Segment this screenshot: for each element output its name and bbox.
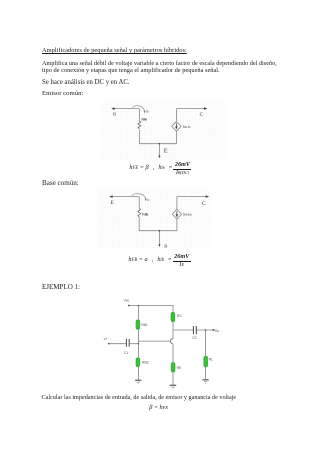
paragraph line 2	[42, 68, 220, 74]
svg-text:C2: C2	[192, 336, 196, 340]
svg-text:RB2: RB2	[142, 361, 149, 365]
capacitor C1 plates	[126, 339, 129, 347]
junction dot rail-RB1	[138, 305, 140, 307]
arrowhead ie hook (points down)	[145, 199, 147, 202]
svg-text:ie: ie	[147, 198, 150, 202]
resistor RL body	[204, 356, 208, 367]
wire emitter vertical to RE	[172, 344, 174, 363]
wire C1 to base node	[129, 343, 138, 345]
current source hfe.ib diamond	[172, 122, 181, 132]
junction dot base	[138, 343, 140, 345]
svg-text:B: B	[164, 244, 167, 249]
wire RE lower to ground	[172, 372, 174, 385]
wire C2 to Vo	[197, 329, 214, 331]
arrow inside source	[176, 211, 178, 216]
terminal dot Vi	[108, 343, 110, 345]
arrowhead C (points right)	[206, 195, 209, 198]
resistor RE body	[171, 362, 175, 372]
svg-text:ib: ib	[146, 110, 149, 114]
wire B stub down	[158, 231, 160, 246]
transistor Q1	[171, 339, 174, 344]
junction dot E	[159, 143, 161, 145]
formula 1: hFE = beta, hie = 26mV/IB(DC)	[129, 162, 191, 176]
svg-text:RL: RL	[209, 358, 213, 362]
wire collector node to C2	[173, 329, 193, 331]
wire collector lead down to transistor	[172, 330, 174, 339]
svg-text:Vo: Vo	[215, 329, 219, 333]
wire above source	[176, 197, 178, 210]
current source hfb.ie diamond	[172, 209, 181, 219]
bottom instruction line	[42, 395, 237, 401]
title	[42, 48, 187, 54]
arrowhead E (points left)	[109, 195, 112, 198]
ground under RL	[203, 379, 209, 381]
arrowhead ib hook (points down)	[144, 111, 146, 114]
current hook ie	[132, 194, 146, 199]
svg-text:hib: hib	[142, 211, 149, 216]
resistor RC body	[171, 312, 175, 322]
svg-text:C1: C1	[124, 351, 128, 355]
wire input Vi to C1	[109, 343, 126, 345]
svg-text:Vi: Vi	[104, 337, 107, 341]
wire bottom rail	[139, 230, 177, 232]
wire RL lower to ground	[205, 367, 207, 380]
wire above source	[175, 109, 177, 122]
arrow inside source	[175, 123, 177, 128]
wire right vertical below source	[176, 219, 178, 230]
dotted grid background circuit 2	[97, 189, 211, 248]
dotted grid background circuit 1	[100, 101, 226, 160]
svg-text:B: B	[113, 112, 116, 117]
ground under RB2	[135, 379, 141, 381]
wire RB2 lower to ground	[137, 367, 139, 381]
terminal dot Vo	[213, 329, 215, 331]
line: Se hace analisis	[42, 80, 130, 87]
svg-text:RB1: RB1	[141, 323, 148, 327]
junction dot RL-Vo	[205, 329, 207, 331]
wire E top-left horizontal	[111, 196, 139, 198]
svg-text:E: E	[164, 148, 168, 155]
formula 2: hFB = a, hib = 26mV/IE	[128, 254, 190, 268]
wire below hib	[138, 217, 140, 231]
wire base node to transistor base	[138, 340, 170, 342]
wire RB2 upper	[137, 344, 139, 358]
arrowhead B (points left)	[111, 107, 114, 110]
wire RB1 branch upper	[137, 306, 139, 320]
svg-text:hfe.ib: hfe.ib	[183, 125, 191, 129]
resistor hib zigzag	[138, 208, 141, 216]
arrowhead B (points down)	[158, 244, 160, 247]
svg-text:E: E	[111, 200, 115, 206]
formula beta = hFE	[149, 405, 168, 411]
wire RC branch upper	[172, 306, 174, 313]
wire left vertical through hib	[138, 197, 140, 209]
capacitor C2 plates	[193, 326, 196, 334]
svg-text:C: C	[202, 201, 206, 207]
wire right vertical below source	[175, 131, 177, 144]
wire left vertical through hie	[138, 109, 140, 121]
wire RL upper	[205, 330, 207, 356]
wire B top-left horizontal	[113, 108, 139, 110]
wire C top-right horizontal	[176, 108, 205, 110]
ground under RE	[170, 384, 177, 386]
current hook ib	[132, 106, 144, 111]
terminal dot Vcc	[128, 305, 130, 307]
heading Base comun	[42, 180, 79, 187]
svg-text:Vcc: Vcc	[124, 299, 130, 303]
svg-text:RC: RC	[177, 314, 182, 318]
wire C top-right horizontal	[177, 196, 207, 198]
arrowhead inside source (points down)	[176, 214, 179, 217]
resistor RB1 body	[136, 320, 140, 330]
wire below hie	[138, 130, 140, 144]
wire RC lower to collector node	[172, 322, 174, 330]
wire bottom rail	[139, 143, 176, 145]
svg-text:hfbxie: hfbxie	[183, 213, 192, 217]
svg-text:C: C	[200, 112, 204, 118]
heading Emisor comun	[42, 91, 83, 98]
wire E stub down	[158, 144, 160, 157]
wire RB1 branch lower	[137, 329, 139, 344]
arrowhead inside source (points down)	[175, 126, 178, 129]
svg-text:hie: hie	[142, 117, 149, 122]
junction dot B	[159, 230, 161, 232]
arrowhead C (points right)	[204, 107, 207, 110]
resistor RB2 body	[136, 358, 140, 367]
heading EJEMPLO 1	[42, 284, 80, 291]
svg-text:RE: RE	[177, 366, 182, 370]
resistor hie zigzag	[138, 121, 141, 129]
paragraph line 1	[42, 61, 277, 67]
arrowhead E (points down)	[158, 156, 160, 159]
wire Vcc top rail	[129, 305, 173, 307]
